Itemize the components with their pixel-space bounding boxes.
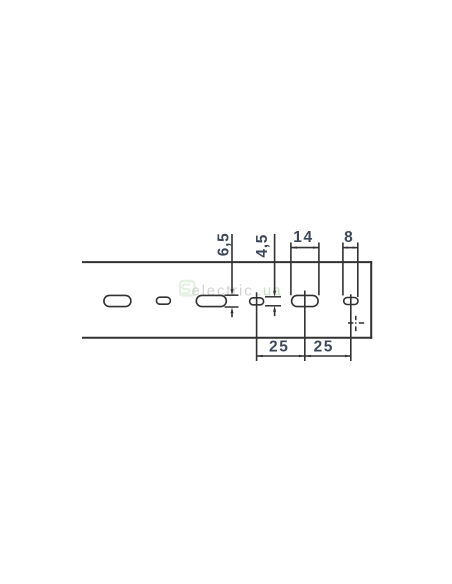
dimension 8 left arrowhead bbox=[343, 247, 348, 249]
svg-text:25: 25 bbox=[269, 339, 289, 356]
watermark logo square bbox=[180, 281, 195, 296]
dimension 4,5 top extension line bbox=[265, 296, 281, 298]
dimension 8 dim line bbox=[343, 247, 358, 249]
oval hole 2 (8x4.5) bbox=[250, 298, 264, 305]
dimension 6,5 upper dim line bbox=[231, 234, 233, 291]
dimension 14 right extension line bbox=[318, 243, 320, 296]
rail right cut edge bbox=[370, 261, 372, 339]
rail bottom edge line bbox=[82, 337, 372, 339]
centerline through slot hole 3 bbox=[304, 291, 306, 362]
rail top edge line bbox=[82, 261, 372, 263]
oval hole 3 (8x4.5) bbox=[344, 298, 358, 305]
dimension 25 chain dim line bbox=[257, 355, 351, 357]
oval hole 1 (8x4.5) bbox=[156, 297, 170, 304]
slot hole 2 (14x6.5) bbox=[196, 295, 226, 306]
svg-text:electric: electric bbox=[192, 282, 254, 299]
dimension 14 left extension line bbox=[290, 243, 292, 296]
cursor crosshair artifact bbox=[348, 316, 364, 331]
dimension 4,5 bottom extension line bbox=[265, 305, 281, 307]
dimension 4,5 lower arrowhead bbox=[273, 306, 276, 312]
dimension 6,5 upper arrowhead bbox=[231, 289, 234, 295]
dimension 25 left arrowhead bbox=[257, 355, 263, 357]
svg-text:14: 14 bbox=[293, 229, 313, 246]
dimension 14 right arrowhead bbox=[313, 246, 319, 248]
dimension 14 dim line bbox=[291, 247, 319, 249]
svg-text:8: 8 bbox=[344, 229, 353, 246]
svg-text:25: 25 bbox=[314, 339, 334, 356]
dimension 6,5 bottom extension line bbox=[225, 306, 239, 308]
dimension 8 right arrowhead bbox=[353, 247, 358, 249]
dimension 14 left arrowhead bbox=[291, 246, 297, 248]
dimension 6,5 lower arrowhead bbox=[231, 307, 234, 313]
dimension 4,5 lower dim line bbox=[274, 310, 276, 316]
dimension 8 left extension line bbox=[342, 243, 344, 296]
centerline through oval hole 3 bbox=[350, 294, 352, 361]
dimension 25 middle right-pointing arrowhead bbox=[299, 355, 305, 357]
svg-text:6,5: 6,5 bbox=[215, 233, 232, 257]
dimension 8 right extension line bbox=[357, 243, 359, 298]
slot hole 3 (14x6.5) bbox=[292, 295, 319, 306]
dimension 4,5 upper arrowhead bbox=[273, 291, 276, 297]
dimension 6,5 lower dim line bbox=[231, 312, 233, 317]
dimension 6,5 top extension line bbox=[225, 294, 239, 296]
slot hole 1 (14x6.5) bbox=[104, 295, 131, 306]
dimension 4,5 upper dim line bbox=[274, 234, 276, 293]
centerline through oval hole 2 bbox=[256, 292, 258, 361]
svg-text:4,5: 4,5 bbox=[254, 234, 271, 258]
dimension 25 right arrowhead bbox=[345, 355, 351, 357]
dimension 25 middle left-pointing arrowhead bbox=[305, 355, 311, 357]
